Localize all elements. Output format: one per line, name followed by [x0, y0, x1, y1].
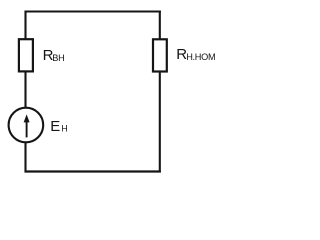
wire left middle: [24, 71, 26, 108]
wire top: [25, 10, 161, 12]
source Eн: [9, 108, 44, 143]
wire left lower: [24, 143, 26, 173]
wire right upper: [159, 11, 161, 41]
svg-text:H: H: [61, 123, 67, 133]
label Rвн: [43, 47, 65, 64]
svg-text:E: E: [50, 118, 60, 135]
resistor Rн.ном: [153, 39, 167, 71]
resistor Rвн: [19, 39, 33, 71]
wire left upper: [24, 11, 26, 41]
wire bottom: [25, 170, 161, 172]
svg-text:H.HOM: H.HOM: [186, 52, 215, 62]
arrow of source Eн: [24, 114, 30, 137]
label Rн.ном: [176, 46, 215, 63]
label Eн: [50, 118, 67, 135]
wire right lower: [159, 72, 161, 173]
svg-text:BH: BH: [52, 53, 64, 63]
